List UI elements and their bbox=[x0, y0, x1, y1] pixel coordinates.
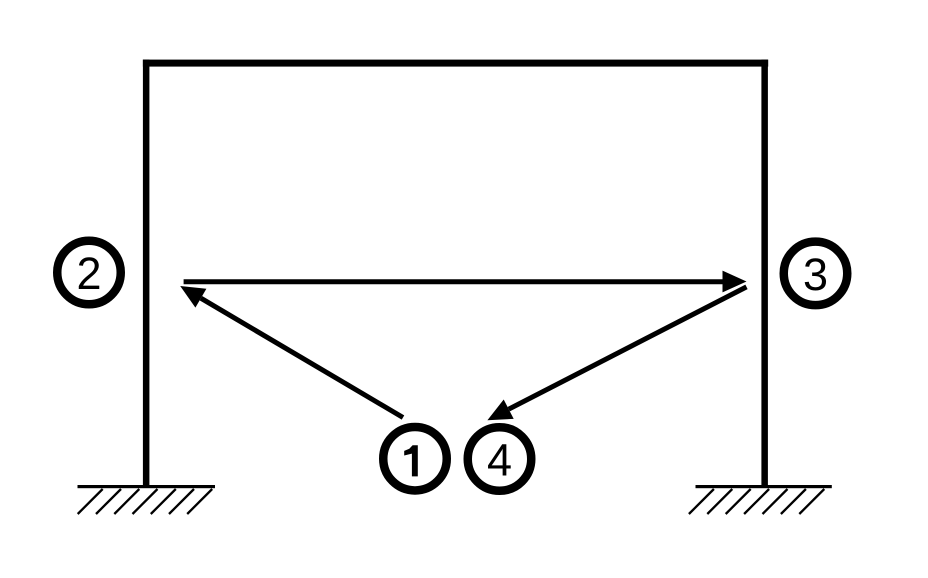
arrow 1 to 2 head (pointing up-left) bbox=[180, 286, 206, 308]
node circle 2 bbox=[57, 241, 121, 305]
svg-text:4: 4 bbox=[487, 434, 512, 485]
arrow 2 to 3 shaft (horizontal) bbox=[184, 279, 725, 284]
node circle 1 bbox=[383, 427, 447, 491]
svg-text:3: 3 bbox=[803, 249, 828, 300]
node circle 3 bbox=[784, 242, 848, 306]
arrow 2 to 3 head (right-pointing) bbox=[723, 271, 747, 293]
node circle 4 bbox=[468, 427, 532, 491]
arrow 1 to 2 shaft (diagonal up-left) bbox=[201, 298, 403, 417]
left support hatching bbox=[78, 489, 213, 514]
right support ground line bbox=[696, 485, 832, 488]
top beam bbox=[143, 60, 768, 67]
left column bbox=[143, 60, 150, 488]
left support ground line bbox=[78, 485, 216, 488]
arrow 3 to 4 shaft (diagonal down-left) bbox=[509, 287, 747, 409]
right column bbox=[761, 60, 768, 488]
svg-text:2: 2 bbox=[76, 248, 101, 299]
arrow 3 to 4 head (pointing down-left) bbox=[487, 400, 513, 421]
right support hatching bbox=[689, 489, 824, 514]
